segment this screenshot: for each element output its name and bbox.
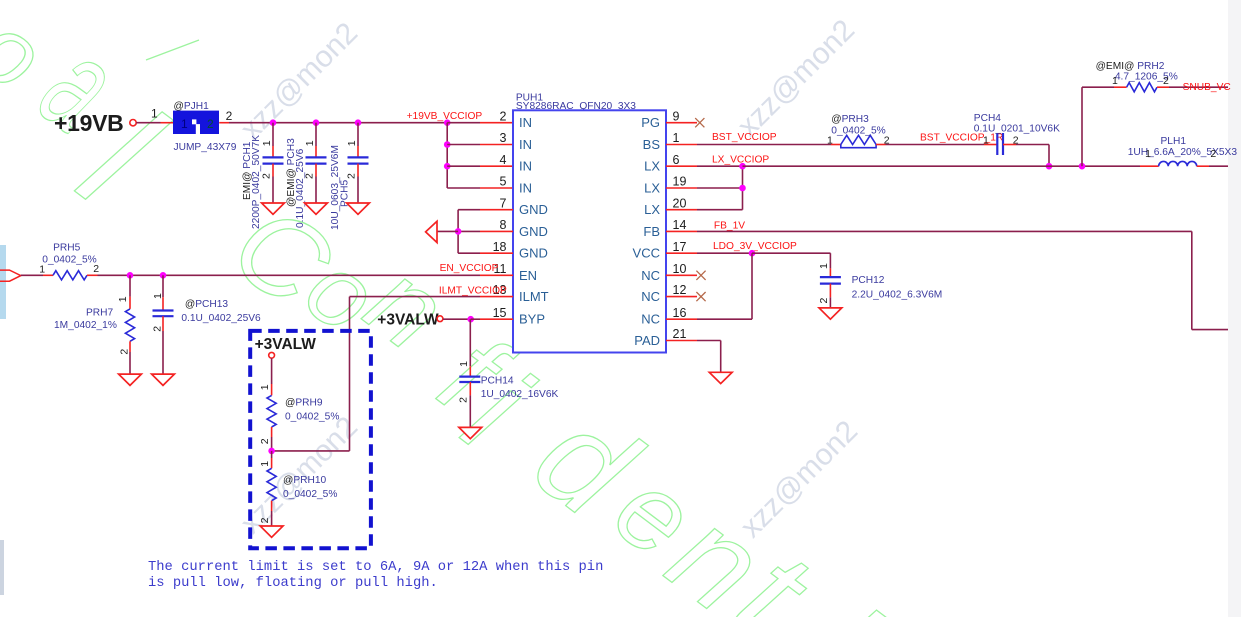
wire PAD to ground [697, 340, 721, 342]
svg-text:IN: IN [519, 137, 532, 152]
svg-text:PAD: PAD [634, 333, 660, 348]
capacitor PCH1 2200P_0402_50V7K [242, 119, 284, 229]
jumper PJH1 JUMP_43X79 [151, 101, 237, 153]
capacitor PCH5 10U_0603_25V6M [330, 119, 369, 230]
svg-text:IN: IN [519, 159, 532, 174]
svg-text:1: 1 [818, 263, 830, 269]
svg-text:+3VALW: +3VALW [377, 312, 439, 329]
left edge lower gray strip [0, 540, 4, 595]
pin stub [666, 122, 697, 124]
svg-text:1: 1 [261, 140, 273, 146]
svg-text:2: 2 [260, 173, 272, 179]
svg-text:@PRH9: @PRH9 [285, 397, 323, 408]
svg-text:4: 4 [500, 153, 507, 167]
junction node GND bus [455, 228, 462, 235]
svg-text:LX: LX [644, 181, 660, 196]
pin stub [666, 340, 697, 342]
junction node LX (pin19) [739, 185, 746, 192]
svg-text:FB_1V: FB_1V [714, 220, 745, 231]
wire to IN pin [447, 122, 480, 124]
pin stub [666, 209, 697, 211]
svg-text:1: 1 [117, 296, 129, 302]
resistor PRH10 0_0402_5% [259, 451, 337, 526]
svg-text:SNUB_VC: SNUB_VC [1183, 82, 1231, 93]
ground (PCH1) [262, 203, 285, 214]
wire vertical IN bus [446, 123, 448, 188]
wire PJH1 pin2 to +19VB_VCCIOP rail [219, 122, 229, 124]
svg-text:2: 2 [226, 109, 233, 123]
svg-text:2: 2 [818, 298, 830, 304]
svg-text:1: 1 [259, 461, 271, 467]
svg-text:PRH5: PRH5 [53, 242, 81, 253]
ground (PCH5) [347, 203, 370, 214]
wire LX rail to inductor [743, 165, 1141, 167]
svg-text:GND: GND [519, 202, 548, 217]
svg-text:ILMT: ILMT [519, 289, 549, 304]
svg-text:@PJH1: @PJH1 [174, 101, 210, 112]
svg-text:9: 9 [673, 109, 680, 123]
ground (PRH10) [260, 526, 283, 537]
power net label +3VALW (BYP) [377, 312, 443, 329]
svg-text:BS: BS [643, 137, 661, 152]
resistor PRH2 4.7_1206_5% [1096, 61, 1178, 92]
svg-text:PCH14: PCH14 [481, 376, 514, 387]
svg-text:EN: EN [519, 268, 537, 283]
svg-text:21: 21 [673, 327, 687, 341]
svg-text:1: 1 [1112, 75, 1118, 87]
svg-text:19: 19 [673, 175, 687, 189]
svg-text:NC: NC [641, 268, 660, 283]
dashed selection box [250, 331, 371, 548]
svg-text:LDO_3V_VCCIOP: LDO_3V_VCCIOP [713, 241, 797, 252]
wire GND pins 7/8/18 bus [480, 209, 513, 211]
svg-text:8: 8 [500, 218, 507, 232]
power net label +3VALW (in box) [255, 336, 317, 358]
ground (PRH7) [119, 374, 142, 385]
svg-text:+19VB: +19VB [54, 110, 123, 136]
svg-text:2: 2 [118, 349, 130, 355]
no-connect X (PG) [695, 118, 704, 127]
svg-text:+3VALW: +3VALW [255, 336, 317, 353]
wire to IN pin [447, 187, 480, 189]
junction node PRH9/PRH10 [268, 448, 275, 455]
pin stub [666, 296, 697, 298]
svg-text:EN_VCCIOP: EN_VCCIOP [440, 263, 499, 274]
svg-text:5: 5 [500, 175, 507, 189]
wire snubber branch [1081, 87, 1083, 166]
svg-text:LX: LX [644, 159, 660, 174]
svg-text:0_0402_5%: 0_0402_5% [831, 126, 885, 137]
junction node LX (pin6) [739, 163, 746, 170]
wire VCC net [697, 252, 752, 254]
svg-text:PG: PG [641, 115, 660, 130]
svg-text:0.1U_0201_10V6K: 0.1U_0201_10V6K [974, 124, 1060, 135]
svg-text:@PCH13: @PCH13 [185, 299, 229, 310]
wire BYP net [443, 318, 471, 320]
svg-text:2: 2 [458, 397, 470, 403]
wire EN to IC [98, 274, 481, 276]
ground (PCH3) [305, 203, 328, 214]
capacitor PCH12 2.2U_0402_6.3V6M [818, 253, 942, 308]
wire inductor out [1209, 165, 1228, 167]
svg-text:1: 1 [304, 140, 316, 146]
svg-text:NC: NC [641, 312, 660, 327]
svg-text:LX: LX [644, 202, 660, 217]
svg-text:7: 7 [500, 196, 507, 210]
resistor PRH5 0_0402_5% [39, 242, 99, 280]
svg-text:12: 12 [673, 283, 687, 297]
capacitor PCH13 0.1U_0402_25V6 [151, 272, 261, 374]
ground (PAD) [709, 372, 732, 383]
svg-text:NC: NC [641, 289, 660, 304]
svg-text:0_0402_5%: 0_0402_5% [285, 412, 339, 423]
wire to IN pin [447, 165, 480, 167]
junction node LDO [749, 250, 756, 257]
junction node BYP [467, 316, 474, 323]
svg-text:1M_0402_1%: 1M_0402_1% [54, 320, 117, 331]
pin stub [666, 252, 697, 254]
svg-text:16: 16 [673, 306, 687, 320]
ground (analog arrow at GND pins) [426, 221, 437, 242]
note text about current limit [148, 560, 603, 592]
left edge blue strip [0, 245, 6, 319]
svg-text:20: 20 [673, 196, 687, 210]
svg-text:IN: IN [519, 181, 532, 196]
page background right gray strip [1228, 0, 1241, 617]
svg-text:2: 2 [93, 263, 99, 275]
capacitor PCH14 1U_0402_16V6K [458, 319, 559, 427]
svg-text:10: 10 [673, 262, 687, 276]
svg-text:14: 14 [673, 218, 687, 232]
svg-text:2200P_0402_50V7K: 2200P_0402_50V7K [251, 135, 262, 229]
svg-text:17: 17 [673, 240, 687, 254]
ground (PCH13) [152, 374, 175, 385]
wire BS net [697, 144, 831, 146]
junction node LX snubber branch [1079, 163, 1086, 170]
svg-text:2: 2 [207, 117, 214, 131]
svg-text:ILMT_VCCIOP: ILMT_VCCIOP [439, 286, 507, 297]
svg-text:GND: GND [519, 224, 548, 239]
pin stub [666, 274, 697, 276]
svg-text:BST_VCCIOP: BST_VCCIOP [712, 132, 777, 143]
op-amp/regulator IC PUH1 SY8286RAC_QFN20_3X3 [493, 93, 687, 353]
gray watermark xzz@mon2 (top-left) [234, 13, 864, 544]
svg-text:@PRH3: @PRH3 [831, 114, 869, 125]
svg-text:1: 1 [181, 117, 188, 131]
svg-text:1U_0402_16V6K: 1U_0402_16V6K [481, 389, 559, 400]
svg-text:1: 1 [152, 293, 164, 299]
no-connect X (NC10) [696, 271, 705, 280]
svg-text:2: 2 [345, 173, 357, 179]
off-page connector (EN input) [0, 270, 21, 281]
pin stub [666, 318, 697, 320]
wire to IN pin [447, 144, 480, 146]
green watermark outline letters "Confidential" [0, 0, 903, 617]
wire EN net [21, 274, 43, 276]
pin stub [666, 144, 697, 146]
resistor PRH9 0_0402_5% [259, 358, 339, 451]
resistor PRH3 0_0402_5% [827, 114, 890, 148]
svg-text:1: 1 [39, 264, 45, 276]
wire +19VB to PJH1 pin1 [136, 122, 160, 124]
ground (PCH12) [819, 308, 842, 319]
svg-text:2.2U_0402_6.3V6M: 2.2U_0402_6.3V6M [852, 289, 943, 300]
svg-text:xzz@mon2: xzz@mon2 [234, 16, 364, 146]
svg-text:IN: IN [519, 115, 532, 130]
ground (PCH14) [459, 427, 482, 438]
svg-text:2: 2 [1210, 148, 1216, 160]
capacitor PCH3 0.1U_0402_25V6 [286, 119, 327, 228]
svg-text:2: 2 [500, 109, 507, 123]
pin stub [666, 187, 697, 189]
svg-text:0_0402_5%: 0_0402_5% [42, 255, 96, 266]
svg-text:@EMI@ PRH2: @EMI@ PRH2 [1096, 61, 1165, 72]
svg-text:2: 2 [1163, 75, 1169, 87]
svg-text:3: 3 [500, 131, 507, 145]
wire PCH4 to LX rail [1016, 144, 1049, 146]
svg-text:+19VB_VCCIOP: +19VB_VCCIOP [407, 111, 483, 122]
pin stub [666, 165, 697, 167]
wire PRH3 to PCH4 [886, 144, 985, 146]
svg-text:1: 1 [259, 384, 271, 390]
svg-text:6: 6 [673, 153, 680, 167]
svg-text:2: 2 [151, 326, 163, 332]
svg-text:1: 1 [1145, 148, 1151, 160]
capacitor PCH4 0.1U_0201_10V6K [974, 113, 1060, 155]
svg-text:1: 1 [458, 361, 470, 367]
wire LDO to NC16 [751, 253, 753, 319]
junction node +19VB_VCCIOP at IN pins [444, 119, 451, 126]
svg-text:2: 2 [259, 438, 271, 444]
svg-text:15: 15 [493, 306, 507, 320]
svg-text:PRH7: PRH7 [86, 307, 114, 318]
svg-text:VCC: VCC [633, 246, 660, 261]
svg-text:0_0402_5%: 0_0402_5% [283, 489, 337, 500]
svg-text:GND: GND [519, 246, 548, 261]
no-connect X (NC12) [696, 292, 705, 301]
svg-text:PCH12: PCH12 [852, 275, 885, 286]
svg-text:2: 2 [303, 173, 315, 179]
svg-text:2: 2 [259, 517, 271, 523]
svg-text:0.1U_0402_25V6: 0.1U_0402_25V6 [295, 148, 306, 228]
resistor PRH7 1M_0402_1% [54, 272, 135, 374]
svg-text:0.1U_0402_25V6: 0.1U_0402_25V6 [181, 313, 261, 324]
svg-text:1: 1 [151, 107, 158, 121]
pin stub [666, 230, 697, 232]
svg-text:JUMP_43X79: JUMP_43X79 [174, 142, 237, 153]
svg-text:1: 1 [673, 131, 680, 145]
svg-text:18: 18 [493, 240, 507, 254]
wire to ground arrow [437, 230, 458, 232]
svg-text:PCH4: PCH4 [974, 113, 1002, 124]
power net label +19VB [54, 110, 136, 136]
svg-text:1: 1 [827, 135, 833, 147]
wire FB net [697, 230, 1192, 232]
svg-text:FB: FB [643, 224, 660, 239]
svg-text:@PRH10: @PRH10 [283, 475, 327, 486]
svg-text:PLH1: PLH1 [1161, 136, 1187, 147]
svg-text:BYP: BYP [519, 312, 545, 327]
wire ILMT net [480, 296, 513, 298]
wire to SNUB_VC [1169, 86, 1228, 88]
svg-text:1: 1 [983, 135, 989, 147]
junction node BST/LX [1046, 163, 1053, 170]
inductor PLH1 1UH_6.6A_20%_5X5X3 [1128, 136, 1238, 166]
wire LX pins bus [697, 165, 743, 167]
svg-text:1: 1 [346, 140, 358, 146]
